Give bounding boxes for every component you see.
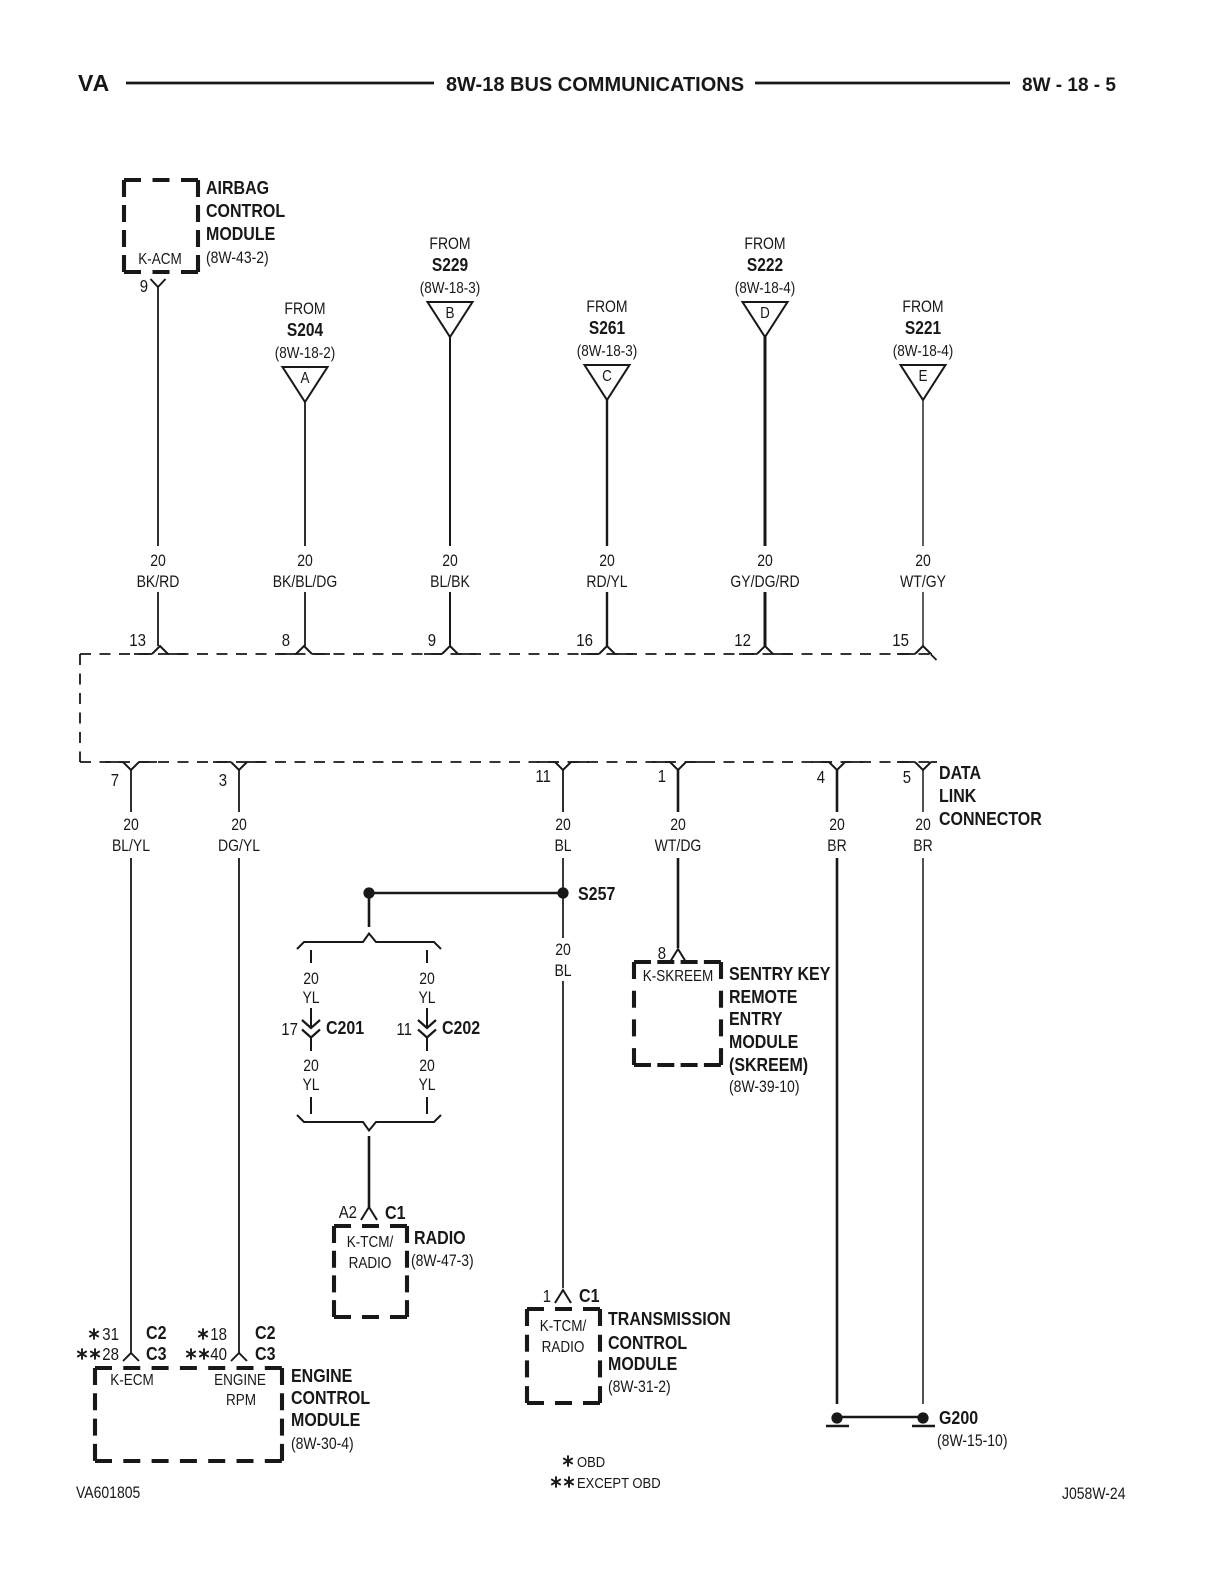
bus split (top brace) [297,934,441,950]
svg-text:1: 1 [658,766,666,786]
transmission control module label [608,1308,731,1396]
DLC pin 15 [892,630,936,660]
ECM pin 31/28 markers [89,1322,166,1344]
svg-text:13: 13 [129,630,146,650]
wire BK/RD from K-ACM pin 9 to DLC pin 13 [137,287,180,646]
ground G200 left terminal [826,1412,849,1426]
svg-text:8: 8 [282,630,290,650]
wire from merge to radio pin A2 [368,1136,371,1207]
svg-text:BR: BR [827,837,846,855]
engine control module label [291,1365,370,1453]
svg-text:K-TCM/: K-TCM/ [540,1318,587,1335]
module K-SKREEM box [634,962,721,1065]
svg-text:S257: S257 [578,883,615,904]
svg-text:11: 11 [535,766,551,786]
svg-text:EXCEPT OBD: EXCEPT OBD [577,1475,661,1492]
module K-ECM (engine control module) box [95,1368,282,1461]
svg-text:7: 7 [111,770,119,790]
sheet code VA601805 [76,1484,140,1502]
svg-text:C3: C3 [255,1343,276,1364]
svg-text:WT/GY: WT/GY [900,573,946,591]
svg-text:15: 15 [892,630,909,650]
svg-text:G200: G200 [939,1407,978,1428]
data link connector left edge (dashed) [79,654,81,762]
svg-text:B: B [446,305,455,322]
svg-text:VA601805: VA601805 [76,1484,140,1502]
ECM pin into K-ECM [123,1353,139,1361]
svg-text:BL/YL: BL/YL [112,837,150,855]
branch wire to C201 [302,950,319,1027]
svg-text:BL/BK: BL/BK [430,573,470,591]
DLC pin 3 [213,762,265,790]
svg-text:20: 20 [757,552,773,570]
svg-text:(8W-43-2): (8W-43-2) [206,249,269,267]
svg-text:A: A [301,370,310,387]
bus merge (bottom brace) [297,1115,441,1131]
svg-text:MODULE: MODULE [608,1353,677,1374]
DLC pin 7 [105,762,157,790]
DLC pin 12 [734,630,791,654]
splice source S204 (triangle A) [275,300,336,402]
svg-text:CONTROL: CONTROL [206,200,285,221]
svg-text:(8W-18-4): (8W-18-4) [735,280,796,297]
svg-text:YL: YL [418,989,435,1007]
footnote legend OBD [563,1454,605,1471]
svg-text:4: 4 [817,767,826,787]
svg-text:20: 20 [419,1057,435,1075]
svg-text:17: 17 [281,1019,298,1039]
svg-text:CONNECTOR: CONNECTOR [939,808,1042,829]
svg-text:20: 20 [442,552,458,570]
svg-text:S229: S229 [432,255,468,275]
svg-text:C2: C2 [146,1322,167,1343]
svg-text:RADIO: RADIO [414,1227,466,1248]
data link connector bottom edge (dashed) [80,761,937,763]
drawing number J058W-24 [1062,1485,1126,1503]
svg-text:8W - 18 - 5: 8W - 18 - 5 [1022,75,1116,96]
svg-text:BK/BL/DG: BK/BL/DG [273,573,338,591]
svg-text:S221: S221 [905,318,941,338]
DLC pin 1 [652,762,704,786]
radio label [411,1227,474,1270]
ground G200 right terminal [912,1412,935,1426]
svg-text:(8W-39-10): (8W-39-10) [729,1078,800,1096]
sentry key remote entry module label [729,963,831,1096]
svg-text:20: 20 [150,552,166,570]
wire DG/YL from DLC pin 3 to ECM [218,770,260,1353]
svg-text:BR: BR [913,837,932,855]
ground G200 tie line [842,1416,918,1419]
svg-text:CONTROL: CONTROL [608,1332,687,1353]
page id VA [78,70,110,96]
data link connector top edge (dashed) [80,653,931,655]
svg-text:RPM: RPM [226,1392,256,1409]
svg-text:MODULE: MODULE [206,223,275,244]
svg-text:MODULE: MODULE [291,1409,360,1430]
module K-ACM (Airbag Control Module) box [124,180,198,272]
DLC pin 16 [576,630,633,654]
splice source S229 (triangle B) [420,235,481,337]
svg-text:20: 20 [555,941,571,959]
svg-text:K-SKREEM: K-SKREEM [643,968,714,985]
svg-text:RADIO: RADIO [542,1339,585,1356]
splice source S261 (triangle C) [577,298,638,400]
svg-text:REMOTE: REMOTE [729,986,797,1007]
svg-text:K-TCM/: K-TCM/ [347,1234,394,1251]
wire BL/YL from DLC pin 7 to ECM [112,770,150,1353]
svg-text:(8W-18-3): (8W-18-3) [577,343,638,360]
svg-text:YL: YL [302,1076,319,1094]
header rule right [755,82,1010,85]
svg-text:C201: C201 [326,1017,364,1038]
wire WT/GY from triangle E to DLC pin 15 [900,400,946,646]
ground G200 label [937,1407,1008,1450]
header rule left [126,82,434,85]
svg-text:ENGINE: ENGINE [291,1365,352,1386]
wire YL below C201 [302,1057,319,1114]
DLC pin 9 [424,630,476,654]
svg-text:FROM: FROM [902,298,943,316]
svg-text:BK/RD: BK/RD [137,573,180,591]
svg-text:3: 3 [219,770,227,790]
wire BK/BL/DG from triangle A to DLC pin 8 [273,402,338,646]
svg-text:20: 20 [123,816,139,834]
splice S257 junction dots and tie line [363,887,568,898]
svg-text:31: 31 [102,1324,119,1344]
module K-TCM/RADIO (transmission control module) box [527,1309,600,1403]
in-line connector C202 pin 11 [396,1017,480,1051]
svg-text:DATA: DATA [939,762,981,783]
svg-text:FROM: FROM [284,300,325,318]
svg-text:S222: S222 [747,255,783,275]
wire WT/DG from DLC pin 1 to SKREEM pin 8 [655,770,702,948]
DLC pin 8 [278,630,330,654]
splice S257 label [578,883,615,904]
SKREEM pin 8 [658,943,686,963]
svg-text:C1: C1 [385,1202,406,1223]
wire BR from DLC pin 5 to ground G200 [913,770,932,1404]
module K-TCM/RADIO (radio) box [334,1226,407,1317]
module K-ACM label [206,177,285,267]
TCM pin 1 connector C1 [543,1285,600,1306]
svg-text:20: 20 [915,552,931,570]
svg-text:AIRBAG: AIRBAG [206,177,269,198]
svg-text:12: 12 [734,630,751,650]
splice source S222 (triangle D) [735,235,796,337]
svg-text:DG/YL: DG/YL [218,837,260,855]
svg-text:RD/YL: RD/YL [586,573,627,591]
page title [446,74,744,96]
svg-text:CONTROL: CONTROL [291,1387,370,1408]
svg-text:D: D [760,305,770,322]
svg-text:(8W-30-4): (8W-30-4) [291,1435,354,1453]
svg-text:S261: S261 [589,318,625,338]
svg-text:BL: BL [554,837,571,855]
svg-text:(8W-31-2): (8W-31-2) [608,1378,671,1396]
svg-text:YL: YL [302,989,319,1007]
svg-text:K-ECM: K-ECM [110,1372,154,1389]
page number 8W-18-5 [1022,75,1116,96]
svg-text:20: 20 [419,970,435,988]
svg-text:28: 28 [102,1344,119,1364]
svg-text:20: 20 [303,1057,319,1075]
svg-text:SENTRY KEY: SENTRY KEY [729,963,831,984]
svg-text:ENGINE: ENGINE [214,1372,266,1389]
svg-text:VA: VA [78,70,110,96]
radio pin A2 connector C1 [339,1202,406,1223]
svg-text:A2: A2 [339,1202,357,1222]
svg-text:20: 20 [599,552,615,570]
svg-text:(8W-18-4): (8W-18-4) [893,343,954,360]
svg-text:C1: C1 [579,1285,600,1306]
svg-text:TRANSMISSION: TRANSMISSION [608,1308,731,1329]
svg-text:(8W-18-3): (8W-18-3) [420,280,481,297]
svg-text:(8W-18-2): (8W-18-2) [275,345,336,362]
footnote legend EXCEPT OBD [551,1475,660,1492]
ECM pin into ENGINE RPM [231,1353,247,1361]
data link connector label [939,762,1042,829]
svg-text:FROM: FROM [586,298,627,316]
svg-text:(SKREEM): (SKREEM) [729,1054,808,1075]
svg-text:MODULE: MODULE [729,1031,798,1052]
wire BL from DLC pin 11 to splice S257 [554,770,571,888]
svg-text:11: 11 [396,1019,412,1039]
pin 9 of K-ACM [140,276,166,296]
svg-text:9: 9 [428,630,436,650]
svg-text:YL: YL [418,1076,435,1094]
svg-text:40: 40 [210,1344,227,1364]
wire stub from S257 down to split [368,898,371,927]
svg-text:(8W-15-10): (8W-15-10) [937,1432,1008,1450]
wire YL below C202 [418,1057,435,1114]
svg-text:C3: C3 [146,1343,167,1364]
ECM pin 18/40 markers [198,1322,275,1344]
svg-text:E: E [919,368,928,385]
svg-text:GY/DG/RD: GY/DG/RD [730,573,799,591]
svg-text:16: 16 [576,630,593,650]
svg-text:OBD: OBD [577,1454,605,1471]
svg-text:C: C [602,368,612,385]
svg-text:20: 20 [915,816,931,834]
svg-text:BL: BL [554,962,571,980]
wire GY/DG/RD from triangle D to DLC pin 12 [730,335,799,646]
svg-text:J058W-24: J058W-24 [1062,1485,1126,1503]
in-line connector C201 pin 17 [281,1017,364,1051]
svg-text:LINK: LINK [939,785,977,806]
svg-text:K-ACM: K-ACM [138,251,182,268]
svg-text:ENTRY: ENTRY [729,1008,783,1029]
svg-text:C2: C2 [255,1322,276,1343]
svg-text:8W-18 BUS COMMUNICATIONS: 8W-18 BUS COMMUNICATIONS [446,74,744,96]
svg-text:20: 20 [829,816,845,834]
wire BR from DLC pin 4 to ground G200 [827,770,846,1404]
svg-text:5: 5 [903,767,911,787]
svg-text:20: 20 [555,816,571,834]
wire BL/BK from triangle B to DLC pin 9 [430,337,470,646]
svg-text:WT/DG: WT/DG [655,837,702,855]
svg-text:(8W-47-3): (8W-47-3) [411,1252,474,1270]
DLC pin 13 [129,630,186,654]
svg-text:20: 20 [297,552,313,570]
DLC pin 5 [897,762,937,787]
svg-text:FROM: FROM [429,235,470,253]
svg-text:RADIO: RADIO [349,1255,392,1272]
svg-text:20: 20 [303,970,319,988]
svg-text:9: 9 [140,276,148,296]
wire RD/YL from triangle C to DLC pin 16 [586,400,627,646]
DLC pin 4 [811,762,863,787]
svg-text:20: 20 [670,816,686,834]
svg-text:FROM: FROM [744,235,785,253]
svg-text:18: 18 [210,1324,227,1344]
splice source S221 (triangle E) [893,298,954,400]
svg-text:20: 20 [231,816,247,834]
wire BL from S257 to TCM pin 1 [554,898,571,1288]
svg-text:S204: S204 [287,320,323,340]
DLC pin 11 [535,762,589,786]
branch wire to C202 [418,950,435,1027]
svg-text:1: 1 [543,1286,551,1306]
svg-text:C202: C202 [442,1017,480,1038]
